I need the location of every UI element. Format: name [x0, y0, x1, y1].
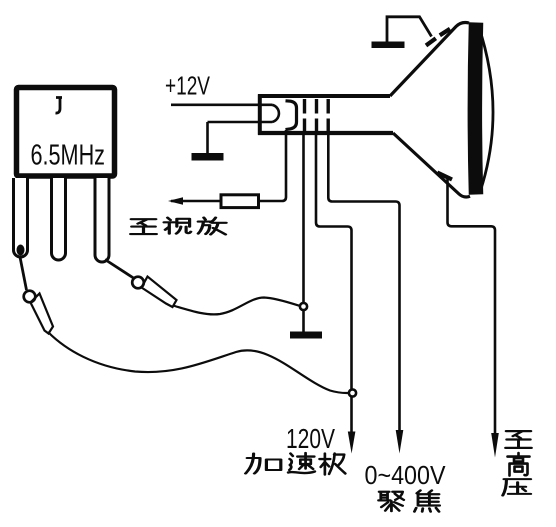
svg-text:120V: 120V: [286, 423, 335, 454]
svg-text:+12V: +12V: [165, 71, 210, 101]
svg-text:6.5MHz: 6.5MHz: [31, 140, 106, 172]
svg-text:0~400V: 0~400V: [365, 462, 446, 490]
